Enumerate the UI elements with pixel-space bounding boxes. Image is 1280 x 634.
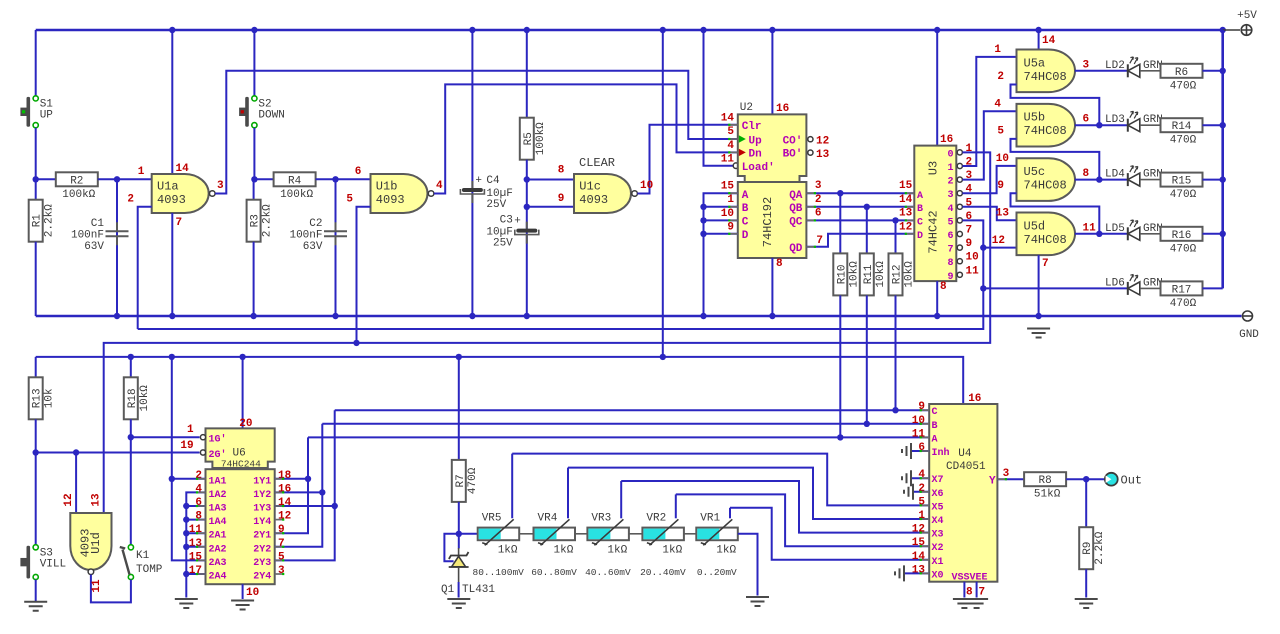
svg-text:C: C <box>917 218 923 229</box>
C line wire to U4 C <box>335 409 930 411</box>
svg-text:470Ω: 470Ω <box>1170 135 1197 147</box>
svg-text:2A3: 2A3 <box>209 558 227 569</box>
svg-text:R1: R1 <box>32 214 44 228</box>
svg-text:A: A <box>932 434 938 445</box>
svg-text:17: 17 <box>189 565 202 577</box>
svg-text:2.2kΩ: 2.2kΩ <box>1094 531 1106 564</box>
resistor R11 10k <box>860 253 874 295</box>
svg-text:U5d: U5d <box>1024 219 1046 233</box>
svg-text:13: 13 <box>91 493 103 507</box>
svg-text:10kΩ: 10kΩ <box>875 261 887 288</box>
svg-text:8: 8 <box>1083 168 1090 180</box>
svg-text:R6: R6 <box>1175 67 1188 79</box>
svg-text:1kΩ: 1kΩ <box>554 544 574 556</box>
wire U3 pin 16 to +5V rail <box>936 30 938 146</box>
svg-text:5: 5 <box>918 496 925 508</box>
resistor R10 10k <box>833 253 847 295</box>
svg-text:12: 12 <box>63 493 75 506</box>
ground at U4 Inh <box>911 450 929 452</box>
wire R17 to +5V rail <box>1203 287 1223 289</box>
svg-text:11: 11 <box>721 154 735 166</box>
ground under U4 pin 7 <box>965 599 988 608</box>
decoder U3 74HC42 <box>914 146 956 282</box>
node grounded input chain <box>183 530 189 536</box>
wire U5b pin 5 from U5c output <box>1011 139 1100 180</box>
svg-text:6: 6 <box>947 231 953 242</box>
svg-text:10kΩ: 10kΩ <box>848 261 860 288</box>
svg-text:16: 16 <box>278 483 291 495</box>
svg-text:5: 5 <box>346 194 353 206</box>
svg-text:12: 12 <box>278 511 291 523</box>
wire VR5 wiper riser <box>511 454 513 519</box>
resistor R1 2.2k <box>29 200 43 242</box>
wire node to U1a pin 1 <box>117 178 152 180</box>
wire U5a pin 2 from U5b output <box>1011 85 1100 126</box>
svg-text:R4: R4 <box>288 175 302 187</box>
svg-text:1A4: 1A4 <box>209 517 227 528</box>
wire node to U1c pin 9 <box>527 206 574 208</box>
svg-text:1Y4: 1Y4 <box>253 517 271 528</box>
wire U5d output to LD5 <box>1075 233 1127 235</box>
wire R10 chain QA to A-line <box>839 193 841 253</box>
svg-text:8: 8 <box>940 281 947 293</box>
pin stubs U4 <box>921 409 930 411</box>
svg-text:X7: X7 <box>932 475 944 486</box>
svg-text:VR5: VR5 <box>482 512 502 524</box>
resistor R14 470 <box>1161 118 1203 132</box>
wire branch to LD6 <box>983 287 1127 289</box>
svg-text:10: 10 <box>912 415 925 427</box>
node B tie <box>700 204 706 210</box>
node A line R10 <box>837 434 843 440</box>
potentiometer VR1 1k <box>696 528 738 541</box>
junction C4 top rail <box>469 27 475 33</box>
svg-text:Y: Y <box>989 476 996 488</box>
wire TL431 anode to ground <box>458 567 460 582</box>
node top rail right corner <box>1220 27 1226 33</box>
svg-text:DOWN: DOWN <box>258 109 284 121</box>
svg-text:4093: 4093 <box>79 529 93 558</box>
svg-text:X1: X1 <box>932 557 944 568</box>
node D tie <box>700 231 706 237</box>
wire +5V feed riser to lower distribution line <box>662 30 664 357</box>
node R8/R9/Out <box>1083 476 1089 482</box>
node C line R12 <box>892 407 898 413</box>
svg-text:7: 7 <box>979 587 986 599</box>
pushbutton S3 VILL <box>33 545 38 550</box>
svg-text:R2: R2 <box>70 175 83 187</box>
wire 1Y1/2Y1 to A line <box>275 478 308 480</box>
wire R8 to Out node <box>1066 478 1105 480</box>
node R4/C2/U1b pin6 <box>332 176 338 182</box>
svg-text:0: 0 <box>947 149 953 160</box>
svg-text:19: 19 <box>180 440 193 452</box>
svg-text:2.2kΩ: 2.2kΩ <box>262 204 274 237</box>
wire R4 to node C2 <box>316 178 336 180</box>
wire R13 bottom to 2G line <box>35 419 37 452</box>
svg-text:R10: R10 <box>836 264 848 284</box>
wire U5c pin 9 from U5d output <box>1011 193 1100 234</box>
svg-text:C: C <box>742 217 749 229</box>
wire QD to U3 D <box>806 234 914 247</box>
svg-text:2: 2 <box>195 470 202 482</box>
svg-text:20..40mV: 20..40mV <box>640 567 686 578</box>
svg-text:1kΩ: 1kΩ <box>607 544 627 556</box>
node U5b output cascade <box>1096 122 1102 128</box>
unconnected stub U6 1Y4 <box>275 519 284 521</box>
svg-text:CO': CO' <box>783 135 803 147</box>
resistor R12 10k <box>889 253 903 295</box>
resistor R17 470 <box>1161 281 1203 295</box>
wire S2 bottom to node <box>253 128 255 180</box>
svg-text:QA: QA <box>789 190 803 202</box>
svg-text:8: 8 <box>776 258 783 270</box>
svg-text:6: 6 <box>355 166 362 178</box>
svg-text:6: 6 <box>815 208 822 220</box>
shunt reference Q1 TL431 <box>458 548 460 555</box>
svg-text:QB: QB <box>789 203 803 215</box>
svg-text:8: 8 <box>195 511 202 523</box>
wire U4 pin 8 to ground <box>963 582 965 598</box>
capacitor C4 <box>471 181 473 203</box>
svg-text:63V: 63V <box>303 241 323 253</box>
wire LD4 to R15 <box>1140 179 1161 181</box>
wire LD2 to R6 <box>1140 70 1161 72</box>
buffer U6 74HC244 control section <box>206 428 275 468</box>
wire VR3-VR2 <box>629 533 643 535</box>
svg-text:470Ω: 470Ω <box>1170 298 1197 310</box>
wire U4 pin 7 to ground <box>976 582 978 598</box>
U2 BO-bar output stub pin 13 <box>806 152 811 154</box>
wire 1Y3/2Y3 to C line <box>275 505 335 507</box>
node S1/R1/R2 <box>33 176 39 182</box>
svg-text:VR4: VR4 <box>538 512 558 524</box>
node U3 pin8 GND <box>934 313 940 319</box>
node R15 on +5V collection rail <box>1220 176 1226 182</box>
wire U6 1A1 tie high <box>172 478 206 480</box>
ground under U6 pin 10 <box>231 601 254 610</box>
wire R12 bottom to C line <box>895 295 897 410</box>
wire branch to U5d pin 12 <box>983 247 1016 249</box>
and gate U5d 74HC08 <box>1017 213 1076 256</box>
svg-text:6: 6 <box>195 497 202 509</box>
wire 2Y3 join <box>275 410 335 560</box>
wire U5a output to LD2 <box>1075 70 1127 72</box>
capacitor C1 <box>106 231 129 236</box>
svg-text:Out: Out <box>1121 474 1143 488</box>
pin stubs U2 <box>729 124 738 126</box>
wire U2 data inputs A-D tied chain <box>704 193 738 316</box>
wire grounded input <box>186 573 205 575</box>
svg-text:1kΩ: 1kΩ <box>498 544 518 556</box>
svg-text:7: 7 <box>966 225 973 237</box>
wire U3 out4 to U5d pin 13 <box>962 207 1016 221</box>
svg-text:63V: 63V <box>84 241 104 253</box>
svg-text:5: 5 <box>997 126 1004 138</box>
svg-text:LD5: LD5 <box>1105 223 1125 235</box>
wire VR4-VR3 <box>575 533 587 535</box>
svg-text:15: 15 <box>912 537 926 549</box>
node C4 bottom GND <box>469 313 475 319</box>
svg-text:1Y3: 1Y3 <box>253 504 271 515</box>
svg-text:4: 4 <box>727 140 734 152</box>
wire R11 bottom to B line <box>866 295 868 423</box>
svg-text:R12: R12 <box>892 264 904 284</box>
svg-text:VR3: VR3 <box>591 512 611 524</box>
svg-text:R18: R18 <box>127 388 139 408</box>
svg-text:B: B <box>742 203 749 215</box>
wire R11 chain QB to B-line <box>866 207 868 254</box>
svg-text:X4: X4 <box>932 516 944 527</box>
svg-text:R15: R15 <box>1172 176 1192 188</box>
svg-text:VILL: VILL <box>40 558 66 570</box>
svg-text:X6: X6 <box>932 489 944 500</box>
junction +5V feed riser top rail <box>660 27 666 33</box>
svg-text:2Y1: 2Y1 <box>253 531 271 542</box>
node 1Y3 join <box>332 503 338 509</box>
svg-text:U2: U2 <box>740 102 753 114</box>
svg-text:4: 4 <box>436 180 443 192</box>
nand gate U1b 4093 <box>371 174 428 213</box>
resistor R15 470 <box>1161 173 1203 187</box>
node ABCD chain on GND rail <box>700 313 706 319</box>
wire grounded input <box>186 532 205 534</box>
node R3 GND <box>250 313 256 319</box>
svg-text:11: 11 <box>912 428 926 440</box>
svg-text:10: 10 <box>640 180 653 192</box>
svg-text:9: 9 <box>947 272 953 283</box>
ground at U4 X6 <box>913 491 929 493</box>
svg-text:10: 10 <box>246 587 259 599</box>
wire VR1 right to ground <box>738 534 758 596</box>
wire R13 top from +5V line <box>35 357 37 377</box>
wire R2 to node C1 <box>98 178 117 180</box>
svg-text:2: 2 <box>815 194 822 206</box>
svg-text:51kΩ: 51kΩ <box>1034 489 1061 501</box>
svg-text:1A3: 1A3 <box>209 504 227 515</box>
wire R7 bottom to VR5/Q1 node <box>458 502 460 534</box>
svg-text:9: 9 <box>558 193 565 205</box>
svg-text:R7: R7 <box>455 474 467 487</box>
svg-text:GND: GND <box>1239 329 1259 341</box>
wire VR2 wiper to U4 X2 <box>676 494 929 546</box>
svg-text:2: 2 <box>918 483 925 495</box>
node U6 pin 20 on +5V line <box>239 354 245 360</box>
resistor R8 51k <box>1024 472 1066 486</box>
svg-text:2Y3: 2Y3 <box>253 558 271 569</box>
capacitor C4 wire from +5V rail to GND rail <box>471 30 473 316</box>
svg-text:7: 7 <box>947 245 953 256</box>
node C3/U1c pin 9 <box>524 204 530 210</box>
potentiometer VR3 1k <box>587 528 629 541</box>
wire C tie <box>704 219 738 221</box>
switch K1 TOMP <box>128 545 133 550</box>
svg-text:X5: X5 <box>932 502 944 513</box>
wire U1d pin 12 riser <box>75 453 77 514</box>
svg-text:X3: X3 <box>932 530 944 541</box>
wire U6 grounded inputs chain <box>186 492 205 597</box>
wire R5 top <box>526 30 528 118</box>
analog mux U4 CD4051 <box>929 404 997 582</box>
U3 output 4 stub pin 5 <box>956 206 960 208</box>
svg-text:1: 1 <box>138 166 145 178</box>
svg-text:5: 5 <box>727 126 734 138</box>
svg-text:R3: R3 <box>250 214 262 227</box>
svg-text:3: 3 <box>278 565 285 577</box>
node U5c output cascade <box>1096 176 1102 182</box>
node U5d pin7 GND <box>1035 313 1041 319</box>
wire node to R2 <box>36 178 56 180</box>
svg-text:5: 5 <box>278 551 285 563</box>
and gate U5c 74HC08 <box>1017 158 1076 201</box>
svg-text:2: 2 <box>127 194 134 206</box>
wire S2 top to +5V rail <box>253 30 255 96</box>
svg-text:R9: R9 <box>1082 542 1094 555</box>
resistor R16 470 <box>1161 227 1203 241</box>
svg-text:U5a: U5a <box>1024 56 1046 70</box>
wire VR1 wiper riser <box>729 508 731 519</box>
node U2 pin8 GND <box>769 313 775 319</box>
wire 2Y1 join <box>275 437 308 533</box>
node QC/R12 <box>892 217 898 223</box>
svg-text:11: 11 <box>966 265 980 277</box>
node C2 bottom on GND rail <box>332 313 338 319</box>
wire U6 pin 10 to ground <box>242 584 244 599</box>
wire C3 to GND rail <box>526 207 528 316</box>
node QB/R11 <box>864 204 870 210</box>
U3 output 2 stub pin 3 <box>956 179 960 181</box>
wire U5c output to LD4 <box>1075 179 1127 181</box>
U3 output 1 stub pin 2 <box>956 165 960 167</box>
wire R15 to +5V rail <box>1203 179 1223 181</box>
wire U3 out2 to U5b pin 4 <box>962 111 1016 179</box>
svg-text:74HC244: 74HC244 <box>221 459 261 470</box>
svg-text:13: 13 <box>816 149 830 161</box>
node B line R11 <box>864 421 870 427</box>
+5V power rail (top) <box>36 29 1223 31</box>
junction S2 top rail <box>251 27 257 33</box>
wire U3 out5 to U5d pin12 / LD6 / U1a feedback line <box>138 220 984 329</box>
svg-text:Q1: Q1 <box>441 584 455 596</box>
wire VR1 wiper to U4 X1 <box>730 508 929 560</box>
output port Out <box>1105 473 1118 486</box>
resistor R7 470 <box>452 460 466 502</box>
pin stubs U3 <box>906 192 915 194</box>
svg-text:1kΩ: 1kΩ <box>662 544 682 556</box>
svg-text:7: 7 <box>816 235 823 247</box>
svg-text:2A4: 2A4 <box>209 572 227 583</box>
wire U1c output pin 10 to U2 Clr <box>637 125 738 194</box>
wire node to R3 top <box>253 179 255 199</box>
ground under U4 pin 8 <box>953 599 976 608</box>
wire U2 pin 16 to +5V rail <box>771 30 773 114</box>
ground at U4 X7 <box>911 477 929 479</box>
node grounded input chain <box>183 544 189 550</box>
resistor R13 10k <box>29 377 43 419</box>
wire R7 top <box>458 357 460 460</box>
wire VR4 wiper to U4 X4 <box>568 468 929 519</box>
resistor R6 470 <box>1161 64 1203 78</box>
svg-text:B: B <box>932 421 938 432</box>
svg-text:470Ω: 470Ω <box>1170 80 1197 92</box>
svg-text:C4: C4 <box>486 175 500 187</box>
wire 2Y2 join <box>275 424 323 547</box>
svg-text:13: 13 <box>996 208 1010 220</box>
svg-text:BO': BO' <box>783 149 803 161</box>
node tie riser on +5V line <box>169 354 175 360</box>
node R7 on +5V line <box>456 354 462 360</box>
svg-text:74HC192: 74HC192 <box>761 197 775 247</box>
svg-text:VSSVEE: VSSVEE <box>952 573 988 584</box>
svg-text:2Y4: 2Y4 <box>253 572 271 583</box>
svg-text:1: 1 <box>727 194 734 206</box>
svg-text:2A1: 2A1 <box>209 531 227 542</box>
svg-text:14: 14 <box>278 497 292 509</box>
svg-text:13: 13 <box>189 538 203 550</box>
svg-text:40..60mV: 40..60mV <box>585 567 631 578</box>
ground at U4 X0 <box>895 565 904 581</box>
wire U2 Load-bar tie to +5V rail <box>704 30 741 166</box>
svg-text:74HC08: 74HC08 <box>1024 70 1067 84</box>
svg-text:470Ω: 470Ω <box>1170 243 1197 255</box>
nand gate U1d 4093 (rotated) <box>70 513 111 570</box>
node R6 on +5V collection rail <box>1220 68 1226 74</box>
wire VR5-VR4 <box>519 533 533 535</box>
svg-text:4: 4 <box>918 469 925 481</box>
svg-text:B: B <box>917 204 923 215</box>
svg-text:1: 1 <box>918 510 925 522</box>
U3 output 5 stub pin 6 <box>956 219 960 221</box>
node U1a pin7 GND <box>169 313 175 319</box>
wire +5V tie riser for 1A1/2A3 <box>172 357 206 561</box>
svg-text:6: 6 <box>1083 114 1090 126</box>
svg-text:R8: R8 <box>1038 475 1051 487</box>
wire U1b output pin 4 down-count line <box>434 84 738 193</box>
wire R5 bottom to node pin8 <box>526 160 528 180</box>
A line wire to U4 A <box>308 436 929 438</box>
junction U2 pin16 top rail <box>769 27 775 33</box>
ground at U4 X7 <box>902 470 911 486</box>
svg-text:9: 9 <box>278 524 285 536</box>
capacitor C2 <box>324 231 347 236</box>
wire LD3 to R14 <box>1140 124 1161 126</box>
svg-text:D: D <box>917 231 923 242</box>
svg-text:74HC08: 74HC08 <box>1024 124 1067 138</box>
svg-text:C1: C1 <box>91 218 105 230</box>
node 1A1 tie <box>169 476 175 482</box>
svg-text:4093: 4093 <box>579 193 608 207</box>
node U5d output cascade <box>1096 231 1102 237</box>
node U1b.5 on count-zero line <box>353 340 359 346</box>
node out5 to LD6 row <box>980 285 986 291</box>
svg-text:12: 12 <box>816 136 829 148</box>
unconnected stub U6 2Y4 <box>275 573 284 575</box>
wire S3 top <box>35 453 37 545</box>
svg-text:K1: K1 <box>136 550 150 562</box>
svg-text:X0: X0 <box>932 570 944 581</box>
wire U5d pin 7 to GND rail <box>1038 255 1040 316</box>
wire VR4 wiper riser <box>567 468 569 519</box>
svg-text:1A1: 1A1 <box>209 476 227 487</box>
wire U1b pin 5 from count-zero line <box>357 207 371 343</box>
svg-text:CLEAR: CLEAR <box>579 156 615 170</box>
svg-text:100nF: 100nF <box>71 230 104 242</box>
wire VR5 wiper to U4 X5 <box>512 454 929 506</box>
svg-text:15: 15 <box>721 181 735 193</box>
wire R18 bottom to 1G line and K1 <box>130 419 132 547</box>
svg-text:+5V: +5V <box>1237 10 1257 22</box>
GND terminal symbol <box>1243 311 1253 321</box>
